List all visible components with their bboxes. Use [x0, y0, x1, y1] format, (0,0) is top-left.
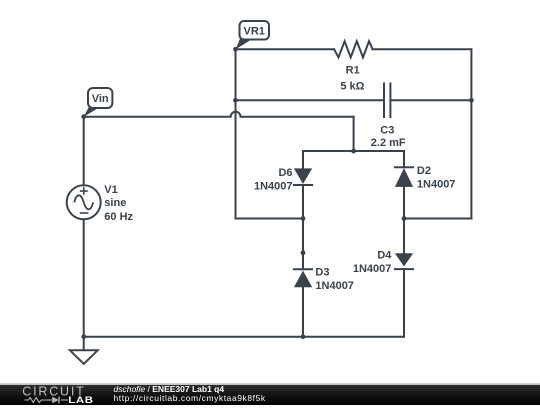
wire V1 bottom to ground	[83, 219, 85, 350]
label V1 value	[104, 184, 133, 223]
svg-text:2.2 mF: 2.2 mF	[371, 137, 406, 149]
node VR1 vertical / cap wire	[233, 98, 238, 103]
label R1 value	[340, 65, 364, 93]
wire D2 cathode	[403, 151, 405, 167]
ground	[70, 350, 98, 364]
net label Vin	[84, 88, 113, 117]
svg-text:1N4007: 1N4007	[254, 181, 293, 193]
wire node to D3	[302, 219, 304, 270]
diode D6	[293, 168, 313, 185]
diode D3	[293, 269, 313, 287]
svg-text:D4: D4	[377, 250, 392, 262]
wire D2 anode to node	[403, 187, 405, 219]
node D2 bottom	[402, 216, 407, 221]
svg-text:60 Hz: 60 Hz	[104, 211, 133, 223]
node D6 bottom	[301, 216, 306, 221]
wire D3 anode down	[302, 287, 304, 336]
resistor R1	[334, 41, 373, 57]
node above D3	[301, 250, 306, 255]
svg-text:1N4007: 1N4007	[315, 280, 354, 292]
wire bottom horizontal	[84, 336, 404, 338]
svg-text:D2: D2	[417, 165, 431, 177]
attribution text	[114, 384, 266, 403]
wire bridge top	[303, 150, 404, 152]
wire Vin horizontal with hop	[84, 112, 354, 117]
CircuitLab logo	[22, 385, 93, 406]
svg-text:5 kΩ: 5 kΩ	[340, 81, 364, 93]
wire bridge right bottom	[404, 218, 471, 220]
wire Vin to bridge	[353, 117, 355, 151]
node right vertical / cap wire	[469, 98, 474, 103]
wire cap left	[236, 99, 385, 101]
svg-text:LAB: LAB	[68, 396, 93, 405]
net label VR1	[236, 21, 269, 49]
svg-text:V1: V1	[104, 184, 117, 196]
wire cap right	[390, 99, 471, 101]
label D3 value	[315, 267, 354, 293]
svg-text:Vin: Vin	[92, 93, 109, 105]
wire top from R1 to right corner	[373, 48, 472, 50]
node Vin junction	[81, 114, 86, 119]
voltage source V1	[67, 185, 101, 219]
wire top from VR1 node to R1	[236, 48, 335, 50]
wire D6 anode	[302, 151, 304, 169]
wire bridge left bottom	[236, 218, 304, 220]
wire D4 top	[403, 219, 405, 254]
footer bar	[0, 383, 540, 405]
wire V1 top	[83, 117, 85, 186]
wire D6 cathode to node	[302, 185, 304, 219]
svg-text:D3: D3	[315, 267, 329, 279]
capacitor C3	[384, 83, 390, 117]
svg-text:R1: R1	[346, 65, 360, 77]
label D4 value	[353, 250, 392, 276]
wire D4 cathode down	[403, 269, 405, 337]
svg-text:sine: sine	[104, 197, 126, 209]
node ground junction	[81, 334, 86, 339]
diode D2	[394, 167, 414, 187]
node D3 bottom	[301, 334, 306, 339]
svg-text:D6: D6	[278, 167, 292, 179]
wire VR1 vertical	[235, 49, 237, 218]
node VR1 junction top	[233, 47, 238, 52]
wire right vertical	[470, 49, 472, 218]
svg-text:C3: C3	[380, 125, 394, 137]
svg-text:1N4007: 1N4007	[417, 179, 456, 191]
diode D4	[394, 253, 414, 269]
label D6 value	[254, 167, 293, 193]
svg-text:1N4007: 1N4007	[353, 263, 392, 275]
label C3 value	[371, 125, 406, 149]
label D2 value	[417, 165, 456, 191]
node bridge top	[351, 149, 356, 154]
svg-text:VR1: VR1	[243, 25, 264, 37]
svg-text:http://circuitlab.com/cmyktaa9: http://circuitlab.com/cmyktaa9k8f5k	[114, 393, 266, 403]
